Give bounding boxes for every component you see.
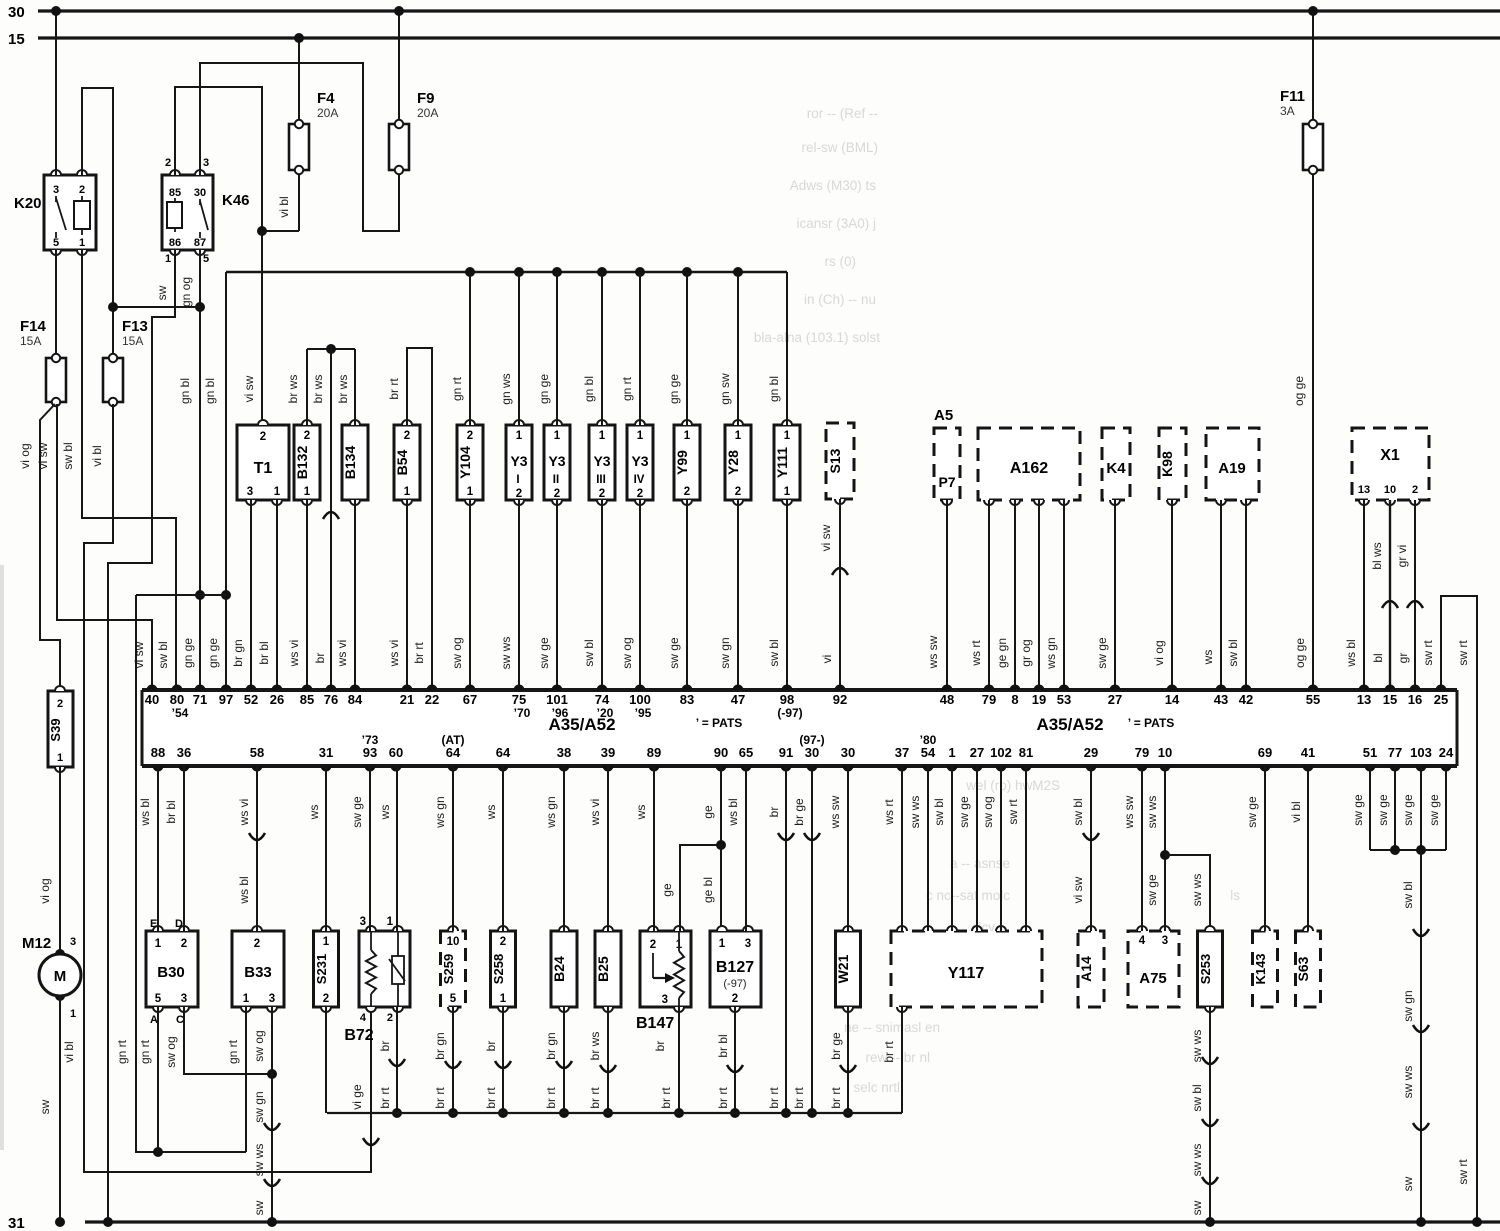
wire branch to B147 pin1, ge bbox=[660, 845, 721, 931]
ECU pin 38 (bottom) bbox=[557, 745, 571, 772]
svg-text:sw: sw bbox=[1401, 1176, 1415, 1191]
svg-text:’96: ’96 bbox=[552, 706, 569, 720]
ECU pin 15 (top) bbox=[1383, 685, 1397, 707]
svg-text:B132: B132 bbox=[294, 446, 310, 480]
svg-text:S253: S253 bbox=[1198, 954, 1213, 984]
svg-text:B147: B147 bbox=[636, 1015, 674, 1032]
svg-text:2: 2 bbox=[554, 488, 560, 500]
svg-text:4: 4 bbox=[360, 1012, 367, 1024]
wire ECU 88 to B30, ws bl bbox=[138, 766, 158, 931]
svg-text:sw ge: sw ge bbox=[1427, 794, 1441, 826]
ECU pin 76 (top) bbox=[324, 685, 338, 707]
ECU pin 69 (bottom) bbox=[1258, 745, 1272, 772]
svg-text:bla-alna (103.1) solst: bla-alna (103.1) solst bbox=[754, 330, 880, 345]
svg-text:C: C bbox=[176, 1014, 184, 1026]
svg-text:br rt: br rt bbox=[544, 1087, 558, 1109]
svg-text:br rt: br rt bbox=[484, 1087, 498, 1109]
svg-text:1: 1 bbox=[165, 253, 171, 265]
svg-text:IV: IV bbox=[634, 474, 645, 486]
injector Y3 I bbox=[506, 420, 532, 505]
svg-text:br ws: br ws bbox=[286, 375, 300, 404]
O2 sensor B33 bbox=[232, 926, 284, 1012]
svg-text:sw ge: sw ge bbox=[1095, 637, 1109, 669]
svg-text:ws: ws bbox=[484, 805, 498, 821]
svg-text:14: 14 bbox=[1165, 692, 1180, 707]
svg-text:31: 31 bbox=[8, 1215, 25, 1231]
svg-text:X1: X1 bbox=[1380, 447, 1400, 464]
ECU pin 1 (bottom) bbox=[947, 745, 958, 772]
svg-text:2: 2 bbox=[684, 486, 690, 498]
svg-text:br rt: br rt bbox=[716, 1087, 730, 1109]
svg-text:sw rt: sw rt bbox=[1456, 1159, 1470, 1185]
sensor B134 bbox=[342, 420, 368, 505]
svg-text:sw bl: sw bl bbox=[1071, 798, 1085, 825]
wire merge to ground bus, sw bl / sw gn / sw ws / sw bbox=[1401, 850, 1429, 1227]
svg-text:B24: B24 bbox=[551, 956, 567, 982]
svg-text:3: 3 bbox=[360, 916, 366, 928]
svg-text:rel-sw (BML): rel-sw (BML) bbox=[802, 140, 879, 155]
ECU pin 74 (top) bbox=[595, 685, 614, 720]
sensor B54 bbox=[394, 420, 420, 505]
ECU pin 52 (top) bbox=[244, 685, 258, 707]
svg-text:80: 80 bbox=[170, 692, 184, 707]
wire Y104 feed, gn rt bbox=[450, 272, 470, 425]
svg-text:79: 79 bbox=[982, 692, 996, 707]
svg-text:sw: sw bbox=[1190, 1200, 1204, 1215]
svg-text:ge: ge bbox=[701, 805, 715, 819]
wire node to ECU pin 71, gn ge bbox=[181, 590, 205, 690]
wire node 71-97 link to O2 heater feed, gn rt bbox=[115, 595, 246, 1157]
svg-text:(-97): (-97) bbox=[777, 706, 802, 720]
svg-text:83: 83 bbox=[680, 692, 694, 707]
wire F14 to S39, vi og bbox=[18, 404, 60, 691]
svg-text:sw gn: sw gn bbox=[718, 637, 732, 668]
svg-text:30: 30 bbox=[841, 745, 855, 760]
ECU pin 60 (bottom) bbox=[389, 745, 403, 772]
svg-text:Y99: Y99 bbox=[674, 450, 690, 475]
svg-text:br ws: br ws bbox=[588, 1032, 602, 1061]
svg-text:53: 53 bbox=[1057, 692, 1071, 707]
svg-text:10: 10 bbox=[1384, 484, 1396, 496]
engine control unit A35/A52 connector band bbox=[142, 690, 1457, 766]
svg-text:c nc--sat molc: c nc--sat molc bbox=[926, 888, 1010, 903]
power bus 30 bbox=[8, 4, 1500, 21]
svg-text:16: 16 bbox=[1408, 692, 1422, 707]
svg-text:br rt: br rt bbox=[882, 1041, 896, 1063]
svg-text:1: 1 bbox=[735, 430, 742, 442]
svg-text:ws: ws bbox=[307, 805, 321, 821]
svg-text:15: 15 bbox=[8, 31, 25, 48]
injector Y3 II bbox=[544, 420, 570, 505]
valve Y111 bbox=[774, 420, 800, 505]
wire B33 pin3 to ground bus, sw og / sw gn / sw ws / sw bbox=[252, 1007, 280, 1227]
svg-text:gn ws: gn ws bbox=[499, 373, 513, 404]
ECU pin 24 (bottom) bbox=[1439, 745, 1454, 772]
svg-text:sw ws: sw ws bbox=[1401, 1066, 1415, 1099]
wire F4 to node, junction bbox=[257, 196, 299, 236]
injector Y3 IV bbox=[627, 420, 653, 505]
svg-text:ge gn: ge gn bbox=[995, 638, 1009, 668]
ECU pin 13 (top) bbox=[1357, 685, 1371, 707]
svg-text:vi og: vi og bbox=[1152, 640, 1166, 665]
svg-text:Y3: Y3 bbox=[593, 453, 610, 469]
unit K4 bbox=[1102, 428, 1130, 505]
fuse F13 15A bbox=[103, 307, 148, 406]
wire A19 to ECU 42, sw bl bbox=[1226, 500, 1246, 690]
ECU pin 27 (top) bbox=[1108, 685, 1122, 707]
svg-text:Y104: Y104 bbox=[457, 446, 473, 479]
ECU pin 21 (top) bbox=[400, 685, 414, 707]
svg-text:4: 4 bbox=[1139, 935, 1146, 947]
svg-text:2: 2 bbox=[304, 430, 310, 442]
svg-text:ws sw: ws sw bbox=[828, 795, 842, 829]
ECU pin 83 (top) bbox=[680, 685, 694, 707]
ECU pin 53 (top) bbox=[1057, 685, 1071, 707]
svg-text:B33: B33 bbox=[244, 964, 272, 981]
wire Y117 to ground rail, br rt bbox=[882, 1007, 902, 1113]
svg-text:gn rt: gn rt bbox=[226, 1039, 240, 1064]
svg-text:br rt: br rt bbox=[588, 1087, 602, 1109]
wire K20 pin5 to F14 bbox=[55, 250, 57, 356]
svg-text:2: 2 bbox=[165, 157, 171, 169]
svg-text:ws vi: ws vi bbox=[335, 640, 349, 668]
svg-text:ws: ws bbox=[378, 805, 392, 821]
unit K98 bbox=[1159, 428, 1186, 505]
svg-text:br: br bbox=[767, 807, 781, 818]
svg-text:M: M bbox=[54, 968, 67, 985]
wire B72 pin2 to ground rail, br / br rt bbox=[378, 1007, 405, 1118]
ignition coil T1 bbox=[237, 420, 289, 505]
svg-text:1: 1 bbox=[719, 938, 726, 950]
ECU pin 80 (top) bbox=[170, 685, 189, 720]
svg-text:37: 37 bbox=[895, 745, 909, 760]
svg-text:gn ge: gn ge bbox=[537, 374, 551, 404]
wire B147 pin3 to ground rail, br / br rt bbox=[653, 1007, 684, 1118]
svg-text:10: 10 bbox=[1158, 745, 1172, 760]
ECU pin 85 (top) bbox=[300, 685, 314, 707]
svg-text:sw ge: sw ge bbox=[1351, 794, 1365, 826]
svg-text:sw ge: sw ge bbox=[957, 796, 971, 828]
svg-text:54: 54 bbox=[921, 745, 936, 760]
fuse F14 15A bbox=[20, 318, 66, 406]
wire node to ignition coil T1 pin2, vi sw bbox=[242, 231, 262, 422]
svg-text:sw bl: sw bl bbox=[767, 639, 781, 666]
svg-text:B54: B54 bbox=[394, 449, 410, 475]
svg-text:3: 3 bbox=[247, 486, 253, 498]
svg-text:sw: sw bbox=[38, 1099, 52, 1114]
svg-text:3: 3 bbox=[745, 938, 751, 950]
fuse F11 3A bbox=[1280, 6, 1323, 690]
ECU pin 31 (bottom) bbox=[319, 745, 333, 772]
svg-text:br bl: br bl bbox=[164, 800, 178, 823]
svg-text:(-97): (-97) bbox=[723, 978, 746, 990]
svg-text:vi bl: vi bl bbox=[90, 445, 104, 466]
svg-text:67: 67 bbox=[463, 692, 477, 707]
wire ECU 69 to K143, sw ge bbox=[1245, 766, 1265, 931]
svg-text:og ge: og ge bbox=[1292, 376, 1306, 406]
svg-text:86: 86 bbox=[169, 237, 181, 249]
svg-text:gn rt: gn rt bbox=[115, 1039, 129, 1064]
ECU pin 37 (bottom) bbox=[895, 745, 909, 772]
wire ECU to Y117 at 928, sw ws bbox=[908, 766, 928, 931]
svg-text:sw: sw bbox=[155, 285, 169, 300]
svg-text:br rt: br rt bbox=[433, 1087, 447, 1109]
svg-text:rew -- br nl: rew -- br nl bbox=[865, 1050, 930, 1065]
svg-text:97: 97 bbox=[219, 692, 233, 707]
ECU pin 8 (top) bbox=[1010, 685, 1021, 707]
svg-text:2: 2 bbox=[57, 698, 63, 710]
svg-text:gr: gr bbox=[1396, 653, 1410, 664]
svg-text:ws gn: ws gn bbox=[544, 796, 558, 828]
svg-text:ws sw: ws sw bbox=[1122, 795, 1136, 829]
svg-text:gn sw: gn sw bbox=[718, 373, 732, 405]
wire ECU to Y117 at 1001, sw og bbox=[981, 766, 1001, 931]
svg-text:A75: A75 bbox=[1139, 970, 1167, 987]
svg-text:1: 1 bbox=[637, 430, 644, 442]
svg-text:2: 2 bbox=[387, 1012, 393, 1024]
wire K20 pin1 to ECU pin 80, sw bl bbox=[61, 250, 176, 690]
svg-text:br rt: br rt bbox=[387, 378, 401, 400]
svg-text:15: 15 bbox=[1383, 692, 1397, 707]
svg-text:1: 1 bbox=[57, 752, 63, 764]
ECU pin 81 (bottom) bbox=[1019, 745, 1033, 772]
svg-text:sw rt: sw rt bbox=[1421, 640, 1435, 666]
transmission unit Y117 bbox=[891, 926, 1042, 1012]
svg-text:64: 64 bbox=[446, 745, 461, 760]
svg-text:(97-): (97-) bbox=[799, 733, 824, 747]
svg-text:in (Ch) -- nu: in (Ch) -- nu bbox=[804, 292, 876, 307]
ECU pin 39 (bottom) bbox=[601, 745, 615, 772]
svg-text:’20: ’20 bbox=[597, 706, 614, 720]
svg-text:vi bl: vi bl bbox=[62, 1041, 76, 1062]
svg-text:gn rt: gn rt bbox=[450, 376, 464, 401]
splice S39 bbox=[48, 686, 73, 772]
decorative ghost text (scan bleed-through) bbox=[754, 106, 1240, 1095]
svg-text:85: 85 bbox=[300, 692, 314, 707]
wire Y28 to ECU 47, sw gn bbox=[718, 500, 738, 690]
ECU pin 64 (bottom) bbox=[496, 745, 511, 772]
wire B33 pin1 heater feed, gn rt bbox=[226, 1007, 246, 1152]
wire B54 pin2 to ECU 22, br rt bbox=[387, 348, 432, 690]
svg-text:85: 85 bbox=[169, 187, 181, 199]
svg-text:K143: K143 bbox=[1253, 953, 1268, 984]
wire ECU 39 to B25, ws vi bbox=[588, 766, 608, 931]
svg-text:gn rt: gn rt bbox=[138, 1039, 152, 1064]
svg-text:sw bl: sw bl bbox=[1190, 1084, 1204, 1111]
unit A19 bbox=[1206, 428, 1259, 505]
svg-text:1: 1 bbox=[784, 430, 791, 442]
wire Y28 feed, gn sw bbox=[718, 272, 738, 425]
svg-text:ws rt: ws rt bbox=[969, 640, 983, 667]
ECU pin 54 (bottom) bbox=[920, 733, 937, 772]
svg-text:ne -- snimasl en: ne -- snimasl en bbox=[844, 1020, 940, 1035]
wire node to ECU pin 76, br bbox=[313, 349, 339, 690]
throttle potentiometer B147 bbox=[636, 926, 691, 1032]
wire ECU to Y117 at 977, sw ge bbox=[957, 766, 977, 931]
wire Y99 to ECU 83, sw ge bbox=[667, 500, 687, 690]
svg-text:F13: F13 bbox=[122, 318, 148, 335]
ECU pin 26 (top) bbox=[270, 685, 284, 707]
svg-text:S231: S231 bbox=[314, 954, 329, 984]
svg-text:sw og: sw og bbox=[450, 637, 464, 668]
svg-text:sw ge: sw ge bbox=[1245, 796, 1259, 828]
ECU pin 30 (bottom) bbox=[799, 733, 824, 772]
ECU pin 65 (bottom) bbox=[739, 745, 753, 772]
svg-text:15A: 15A bbox=[20, 334, 41, 348]
svg-text:br: br bbox=[313, 653, 327, 664]
ECU pin 103 (bottom) bbox=[1410, 745, 1432, 772]
svg-text:24: 24 bbox=[1439, 745, 1454, 760]
svg-text:55: 55 bbox=[1306, 692, 1320, 707]
wire B127 pin2 to ground rail, br bl / br rt bbox=[716, 1007, 743, 1118]
svg-text:Adws (M30) ts: Adws (M30) ts bbox=[790, 178, 877, 193]
wire Y3 III feed, gn bl bbox=[582, 272, 602, 425]
svg-text:br gn: br gn bbox=[231, 639, 245, 666]
svg-text:Y3: Y3 bbox=[548, 453, 565, 469]
power bus 15 bbox=[8, 31, 1500, 48]
svg-text:10: 10 bbox=[447, 936, 460, 948]
svg-text:1: 1 bbox=[684, 430, 691, 442]
svg-text:19: 19 bbox=[1032, 692, 1046, 707]
ECU pin 51 (bottom) bbox=[1363, 745, 1377, 772]
svg-text:B25: B25 bbox=[595, 956, 611, 982]
svg-text:sw ws: sw ws bbox=[499, 637, 513, 670]
svg-text:br gn: br gn bbox=[433, 1032, 447, 1059]
wire ECU 91 to ground rail, br / br rt bbox=[767, 766, 794, 1118]
svg-text:3A: 3A bbox=[1280, 104, 1295, 118]
svg-text:1: 1 bbox=[79, 237, 85, 249]
svg-text:vi og: vi og bbox=[38, 878, 52, 903]
svg-text:3: 3 bbox=[203, 157, 209, 169]
ECU pin 98 (top) bbox=[777, 685, 802, 720]
svg-text:sw ge: sw ge bbox=[537, 637, 551, 669]
wire K46 pin2(85) to F4 node, vi bl bbox=[175, 87, 262, 231]
svg-text:sw bl: sw bl bbox=[1401, 881, 1415, 908]
svg-text:89: 89 bbox=[647, 745, 661, 760]
svg-text:A19: A19 bbox=[1218, 460, 1246, 477]
svg-text:27: 27 bbox=[970, 745, 984, 760]
unit A162 bbox=[978, 428, 1080, 505]
svg-text:38: 38 bbox=[557, 745, 571, 760]
svg-text:sw ge: sw ge bbox=[1376, 794, 1390, 826]
wire K46 pin3(30) to F9 bbox=[200, 63, 400, 231]
svg-text:B127: B127 bbox=[716, 959, 754, 976]
svg-text:F9: F9 bbox=[417, 90, 435, 107]
ECU pin 19 (top) bbox=[1032, 685, 1046, 707]
svg-text:93: 93 bbox=[363, 745, 377, 760]
wire Y3 IV feed, gn rt bbox=[620, 272, 640, 425]
wire B134 to ECU 84, ws vi bbox=[335, 500, 355, 690]
splice S259 bbox=[441, 926, 466, 1012]
svg-text:sw ge: sw ge bbox=[1145, 874, 1159, 906]
svg-text:52: 52 bbox=[244, 692, 258, 707]
svg-text:bl ws: bl ws bbox=[1370, 542, 1384, 569]
svg-text:sw rt: sw rt bbox=[1006, 799, 1020, 825]
ECU pin 58 (bottom) bbox=[250, 745, 264, 772]
svg-text:sw ws: sw ws bbox=[252, 1144, 266, 1177]
svg-text:ws vi: ws vi bbox=[237, 799, 251, 827]
svg-text:60: 60 bbox=[389, 745, 403, 760]
svg-text:S13: S13 bbox=[827, 448, 843, 473]
unit A75 bbox=[1128, 926, 1179, 1007]
svg-text:’ = PATS: ’ = PATS bbox=[696, 716, 743, 730]
wire B132/B134 link, br ws bbox=[286, 344, 355, 425]
ECU pin 25 (top) bbox=[1434, 685, 1448, 707]
svg-text:I: I bbox=[516, 474, 519, 486]
svg-text:K4: K4 bbox=[1106, 460, 1126, 477]
svg-text:1: 1 bbox=[70, 1008, 76, 1020]
injector valve Y104 bbox=[457, 420, 483, 505]
wire ECU to Y117 at 902, ws rt bbox=[882, 766, 902, 931]
svg-text:8: 8 bbox=[1011, 692, 1018, 707]
splice S231 bbox=[314, 926, 339, 1012]
ECU pin 29 (bottom) bbox=[1084, 745, 1098, 772]
wire ECU 25 to ground bus, sw rt bbox=[1421, 596, 1482, 1227]
unit K143 bbox=[1253, 926, 1278, 1007]
svg-text:F11: F11 bbox=[1280, 88, 1305, 105]
unit S63 bbox=[1295, 926, 1321, 1007]
svg-text:br rt: br rt bbox=[829, 1087, 843, 1109]
svg-text:br bl: br bl bbox=[257, 641, 271, 664]
svg-text:2: 2 bbox=[735, 486, 741, 498]
svg-text:gn bl: gn bl bbox=[203, 378, 217, 404]
wire Y3 II feed, gn ge bbox=[537, 272, 557, 425]
svg-text:ws sw: ws sw bbox=[926, 635, 940, 669]
svg-text:br ge: br ge bbox=[792, 798, 806, 826]
svg-text:br ge: br ge bbox=[829, 1032, 843, 1060]
svg-text:gn bl: gn bl bbox=[178, 378, 192, 404]
ECU pin 77 (bottom) bbox=[1388, 745, 1402, 772]
svg-text:64: 64 bbox=[496, 745, 511, 760]
svg-text:’ = PATS: ’ = PATS bbox=[1128, 716, 1175, 730]
wire ECU 31 to S231, ws bbox=[307, 766, 326, 931]
svg-text:ws bl: ws bl bbox=[138, 798, 152, 826]
ECU pin 55 (top) bbox=[1306, 685, 1320, 707]
ECU pin 71 (top) bbox=[193, 685, 207, 707]
svg-text:A162: A162 bbox=[1010, 460, 1048, 477]
svg-text:84: 84 bbox=[348, 692, 363, 707]
svg-text:A: A bbox=[150, 1014, 158, 1026]
svg-text:ws bl: ws bl bbox=[1344, 639, 1358, 667]
svg-text:91: 91 bbox=[779, 745, 793, 760]
ECU pin 101 (top) bbox=[546, 685, 569, 720]
svg-text:’73: ’73 bbox=[362, 733, 379, 747]
wire A162 to ECU 53, ws gn bbox=[1044, 500, 1064, 690]
svg-text:1: 1 bbox=[554, 430, 561, 442]
splice S258 bbox=[491, 926, 516, 1012]
ECU pin 88 (bottom) bbox=[151, 745, 165, 772]
svg-text:sw bl: sw bl bbox=[61, 442, 75, 469]
unit A5/P7 bbox=[934, 407, 960, 505]
svg-text:B72: B72 bbox=[344, 1027, 373, 1044]
wire T1 pin1 to ECU 26, br bl bbox=[257, 500, 277, 690]
wire X1-10 to ECU 15, bl ws / bl bbox=[1370, 500, 1398, 690]
ground bus 31 bbox=[8, 1215, 1500, 1231]
wire B25 to ground rail, br ws / br rt bbox=[588, 1007, 616, 1118]
ECU pin 92 (top) bbox=[833, 685, 847, 707]
wire ECU to Y117 at 1026, sw rt bbox=[1006, 766, 1026, 931]
svg-text:rs (0): rs (0) bbox=[825, 254, 857, 269]
svg-text:sw ws: sw ws bbox=[1145, 796, 1159, 829]
wire K46 pin5(87) down, gn og / gn bl bbox=[178, 250, 205, 595]
wire K20 pin2 to F13 node bbox=[82, 88, 113, 307]
relay K46 bbox=[162, 157, 250, 265]
svg-text:1: 1 bbox=[516, 430, 523, 442]
svg-text:2: 2 bbox=[500, 936, 506, 948]
svg-text:sw gn: sw gn bbox=[1401, 990, 1415, 1021]
svg-text:br rt: br rt bbox=[659, 1087, 673, 1109]
svg-text:gn og: gn og bbox=[179, 277, 193, 307]
